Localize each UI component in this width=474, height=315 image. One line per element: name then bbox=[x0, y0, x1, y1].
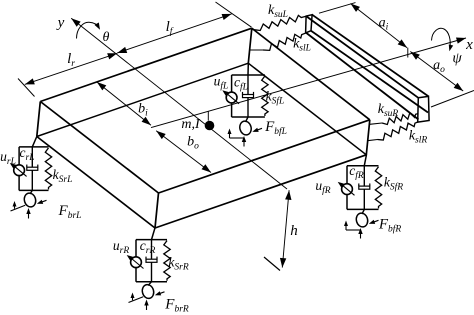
damper crR bbox=[146, 257, 157, 263]
CG mass dot m,I bbox=[205, 121, 215, 131]
label lf bbox=[166, 19, 174, 37]
label kslR bbox=[409, 129, 428, 146]
plate bottom edge Wb-Sb bbox=[37, 137, 155, 229]
bracket frame fR bbox=[347, 166, 379, 210]
actuator circle ufR bbox=[342, 184, 353, 195]
road input arrows left fL bbox=[228, 129, 244, 139]
label FbfR bbox=[378, 217, 402, 235]
road input arrows left rR bbox=[129, 293, 144, 303]
spring kslR bbox=[378, 122, 418, 140]
label kSrR bbox=[168, 255, 188, 273]
label psi bbox=[452, 51, 462, 67]
svg-text:m,I: m,I bbox=[181, 117, 201, 132]
wire tick kslL bbox=[250, 49, 266, 51]
spring ksuR bbox=[382, 113, 419, 125]
bracket frame rR bbox=[136, 240, 167, 282]
bracket frame fL bbox=[232, 75, 265, 117]
label kslL bbox=[293, 37, 311, 54]
spring kslL bbox=[263, 33, 305, 50]
dimension lf bbox=[117, 14, 231, 53]
wire rod plate to bracket fL bbox=[247, 63, 249, 75]
rail edge bottom-back bbox=[306, 32, 419, 119]
extension line ao bottom bbox=[431, 91, 474, 108]
riser from CG dot to x axis bbox=[207, 111, 209, 120]
rail edge top-front bbox=[312, 15, 428, 97]
dimension lr bbox=[25, 53, 117, 84]
dimension ai bbox=[351, 4, 408, 48]
label crR bbox=[140, 238, 156, 256]
label bo bbox=[187, 135, 199, 152]
svg-text:y: y bbox=[56, 15, 65, 31]
label cfR bbox=[349, 163, 364, 181]
road input arrow below fR bbox=[358, 228, 362, 239]
plate top face edge N-E bbox=[252, 28, 370, 120]
bracket frame rL bbox=[19, 147, 48, 191]
label kSrL bbox=[53, 167, 73, 185]
dimension ao bbox=[410, 52, 463, 92]
label theta bbox=[103, 30, 110, 45]
plate bottom edge Sb-Eb bbox=[155, 155, 366, 228]
theta rotation arc bbox=[77, 22, 101, 38]
svg-text:h: h bbox=[290, 223, 298, 239]
label FbrL bbox=[58, 203, 82, 221]
label FbrR bbox=[164, 297, 189, 315]
damper rod rL bbox=[31, 147, 33, 191]
damper rod rR bbox=[151, 240, 153, 282]
label ufR bbox=[315, 178, 330, 196]
damper rod fL bbox=[247, 75, 249, 117]
label lr bbox=[67, 51, 75, 69]
force actuator ellipse FrR bbox=[141, 283, 155, 299]
x axis bbox=[151, 38, 466, 128]
force actuator ellipse FfL bbox=[238, 120, 252, 136]
force arrow FfL bbox=[252, 128, 262, 132]
plate bottom edge Nb-Eb bbox=[248, 63, 366, 155]
actuator arrow urR bbox=[127, 255, 144, 269]
road input arrows left rL bbox=[11, 201, 26, 211]
actuator arrow urL bbox=[10, 163, 27, 177]
plate vertical edge S bbox=[155, 193, 159, 228]
force arrow FrL bbox=[37, 200, 47, 204]
tick ai-ao bbox=[407, 48, 409, 58]
road input arrow below rR bbox=[144, 300, 148, 311]
label ksuL bbox=[268, 3, 288, 20]
rail edge bottom-front bbox=[311, 31, 428, 113]
extension line lf right bbox=[216, 2, 252, 27]
label h bbox=[290, 223, 298, 239]
label ai bbox=[379, 16, 389, 33]
dimension h bbox=[280, 190, 292, 267]
label urR bbox=[113, 238, 129, 256]
wire rod bracket to force ellipse rL bbox=[30, 190, 32, 194]
wire tick ksuR bbox=[370, 123, 382, 124]
label ufL bbox=[214, 74, 229, 92]
plate vertical edge N bbox=[248, 28, 252, 63]
spring ksuL bbox=[253, 15, 307, 30]
label y bbox=[56, 15, 65, 31]
svg-text:ψ: ψ bbox=[452, 51, 462, 67]
rail edge top-back bbox=[306, 16, 418, 98]
plate bottom edge Nb-Wb bbox=[37, 63, 249, 136]
label cfL bbox=[234, 75, 248, 93]
road input arrow below rL bbox=[26, 208, 30, 219]
spring kSrL bbox=[45, 148, 51, 190]
svg-text:θ: θ bbox=[103, 30, 110, 45]
label urL bbox=[0, 149, 16, 167]
damper crL bbox=[27, 165, 38, 171]
rail far end face bbox=[418, 96, 429, 122]
label kSfR bbox=[384, 175, 403, 193]
psi rotation arc bbox=[432, 28, 454, 51]
y axis bbox=[71, 18, 287, 189]
force actuator ellipse FrL bbox=[23, 192, 37, 208]
damper cfR bbox=[359, 183, 370, 189]
force actuator ellipse FfR bbox=[355, 212, 369, 228]
wire rod bracket to force ellipse fR bbox=[362, 209, 364, 214]
plate top face edge S-W bbox=[40, 102, 158, 194]
spring kSrR bbox=[164, 241, 170, 281]
wire rod plate to bracket fR bbox=[364, 155, 366, 166]
plate top face edge E-S bbox=[159, 120, 370, 193]
label FbfL bbox=[264, 119, 287, 137]
actuator arrow ufL bbox=[222, 90, 239, 104]
actuator arrow ufR bbox=[338, 182, 355, 196]
label mI bbox=[181, 117, 201, 132]
actuator circle ufL bbox=[226, 92, 237, 103]
wire rod bracket to force ellipse rR bbox=[148, 282, 152, 286]
damper rod fR bbox=[363, 166, 365, 210]
label bi bbox=[138, 102, 148, 119]
plate vertical edge W bbox=[37, 102, 41, 137]
road input arrow below fL bbox=[242, 136, 246, 147]
extension line ai top bbox=[319, 3, 356, 14]
actuator circle urR bbox=[131, 257, 142, 268]
svg-text:x: x bbox=[465, 37, 473, 53]
plate top face edge W-N bbox=[40, 28, 252, 101]
wire tick kslR bbox=[367, 140, 377, 141]
wire rod bracket to force ellipse fL bbox=[246, 117, 249, 122]
label ao bbox=[433, 58, 445, 75]
spring kSfL bbox=[262, 76, 268, 116]
extension line lr left bbox=[18, 79, 35, 97]
label kSfL bbox=[266, 89, 285, 107]
force arrow FfR bbox=[369, 220, 379, 224]
spring kSfR bbox=[375, 167, 381, 209]
force arrow FrR bbox=[155, 291, 165, 295]
damper cfL bbox=[243, 92, 254, 98]
dimension bi bbox=[97, 82, 151, 125]
ground tick h bbox=[264, 257, 280, 271]
actuator circle urL bbox=[14, 165, 25, 176]
plate vertical edge E bbox=[366, 120, 370, 155]
label ksuR bbox=[378, 102, 399, 119]
road input arrows left fR bbox=[344, 221, 360, 231]
wire rod plate to bracket rL bbox=[32, 137, 37, 147]
dimension bo bbox=[156, 131, 211, 173]
rail near end face bbox=[306, 15, 313, 33]
label x bbox=[465, 37, 473, 53]
label crL bbox=[20, 145, 35, 163]
wire rod plate to bracket rR bbox=[152, 228, 156, 240]
